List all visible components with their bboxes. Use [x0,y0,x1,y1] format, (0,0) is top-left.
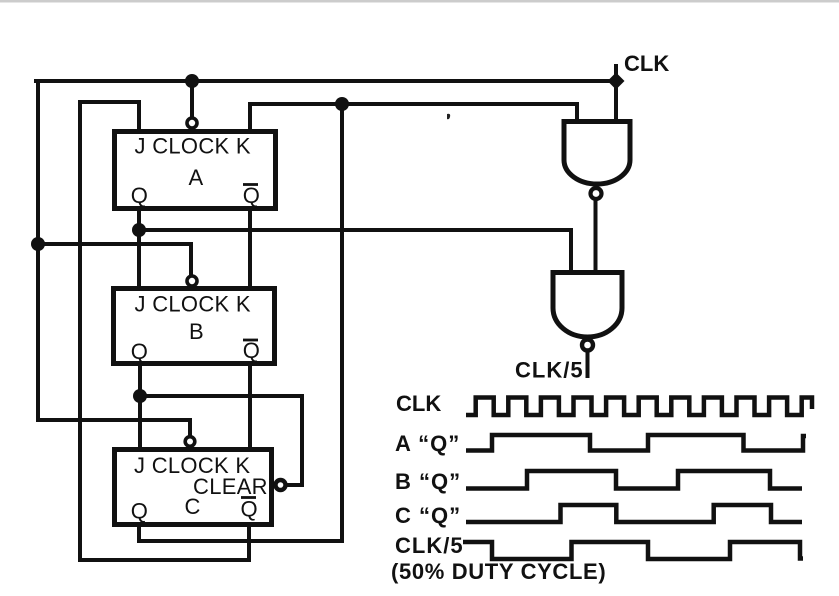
flip-flop C (JK) [115,450,272,525]
flip-flop C clock inversion bubble [185,437,195,447]
timing waveform C Q [466,505,802,522]
svg-text:Q: Q [131,339,148,364]
svg-text:CLK/5: CLK/5 [515,358,584,383]
svg-text:Q: Q [243,338,260,363]
wire right bus x=342 [139,104,342,541]
wire CLK drop to FF A clock [190,81,194,118]
svg-text:B: B [189,319,204,344]
wire C Q to A K and NAND U1 input [250,104,577,131]
svg-text:C “Q”: C “Q” [395,503,461,528]
wire U1 output to U2 input [594,201,598,272]
svg-text:J CLOCK K: J CLOCK K [135,292,251,317]
timing waveform CLK/5 [463,542,803,559]
wire B Q to C J [138,365,142,448]
svg-text:Q: Q [131,183,148,208]
wire left outer bus x=38 [36,81,40,420]
junction CLK node (diamond) [608,73,625,90]
timing waveform A Q [466,435,806,451]
junction B Q node [133,389,147,403]
svg-text:CLK: CLK [624,51,669,76]
flip-flop A (JK) [115,132,276,209]
wire branch to FF C clock [38,420,190,437]
wire CLK horizontal bus y=81 [36,79,616,83]
wire A Qbar to B K [248,209,252,287]
svg-text:Q: Q [131,499,148,524]
svg-text:CLK: CLK [396,391,441,416]
svg-text:C: C [185,494,201,519]
svg-text:B “Q”: B “Q” [395,469,461,494]
scan speck [447,114,450,119]
junction A K / right bus [335,97,349,111]
wire branch to FF B clock [38,244,191,276]
wire A Q to B J [137,209,141,287]
wire B Qbar to C K [248,365,252,448]
svg-text:A: A [189,165,204,190]
svg-text:Q: Q [243,183,260,208]
junction A Q node [132,223,146,237]
flip-flop C CLEAR bubble [276,480,286,490]
NAND gate U1 [564,122,630,185]
wire B Q to C CLEAR [140,396,302,485]
junction CLK at FF A clock [185,74,199,88]
wire C Qbar to A J (left bus x=80) [80,102,249,560]
svg-text:CLEAR: CLEAR [193,474,268,499]
svg-text:Q: Q [241,497,258,522]
flip-flop A clock inversion bubble [187,118,197,128]
wire U2 output stub [586,353,590,376]
flip-flop B (JK) [114,289,275,365]
wire CLK stub to NAND U1 input [614,66,618,120]
NAND gate U1 output bubble [591,188,602,199]
wire A Q to NAND U2 input [139,230,571,272]
svg-text:J CLOCK K: J CLOCK K [135,134,251,159]
NAND gate U2 [553,273,622,338]
svg-text:A “Q”: A “Q” [395,431,460,456]
svg-text:(50% DUTY CYCLE): (50% DUTY CYCLE) [391,559,606,584]
svg-text:CLK/5: CLK/5 [395,533,464,558]
junction left bus to B clock [31,237,45,251]
timing waveform B Q [466,471,802,489]
timing waveform CLK [466,398,812,416]
NAND gate U2 output bubble [582,340,593,351]
flip-flop B clock inversion bubble [187,276,197,286]
